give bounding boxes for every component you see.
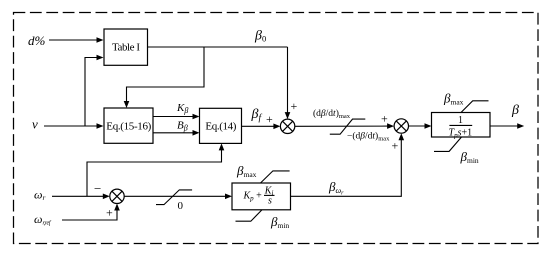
arrowhead omega_rref into J3 bottom: [114, 204, 120, 211]
arrowhead into lag box: [425, 123, 432, 129]
wire branch down to Eq.(15-16): [127, 47, 205, 103]
svg-text:+: +: [381, 111, 388, 125]
wire omega_r branch up into Eq.(14): [87, 148, 222, 196]
wire lag box output beta: [490, 125, 519, 127]
wire K_beta: [153, 116, 194, 118]
wire v to Eq.(15-16): [44, 125, 97, 127]
svg-text:Tps+1: Tps+1: [449, 127, 473, 139]
box Table I: [104, 29, 148, 65]
saturation glyph PI bottom: [236, 210, 263, 221]
saturation glyph PI top: [261, 171, 290, 183]
wire v branch up to Table I: [85, 58, 97, 127]
wire Table I output to node beta0: [148, 46, 288, 48]
svg-text:−: −: [94, 181, 101, 196]
rate limiter glyph: [330, 119, 366, 134]
svg-text:β: β: [511, 103, 519, 118]
arrowhead omega_r branch into Eq.(14) bottom: [219, 143, 225, 150]
wire PI output beta_omega up into J2: [291, 139, 402, 196]
fraction bar 1/(Tps+1): [449, 124, 472, 126]
wire Eq.(14) output beta_f to J1: [242, 125, 276, 127]
wire omega_rref to J3: [62, 209, 117, 220]
wire omega_r to J3: [52, 195, 104, 197]
svg-text:Eq.(15-16): Eq.(15-16): [106, 121, 151, 133]
svg-text:s: s: [268, 196, 272, 207]
svg-text:+: +: [392, 138, 399, 152]
arrowhead beta output: [517, 123, 524, 129]
svg-text:1: 1: [458, 115, 463, 126]
summing junction J1: [280, 119, 294, 133]
summing junction J2: [394, 119, 408, 133]
arrowhead B_beta into Eq.(14): [193, 130, 200, 136]
box lag 1/(Tps+1): [432, 113, 491, 138]
arrowhead omega_r into J3: [103, 194, 110, 200]
box Eq.(14): [200, 108, 242, 143]
arrowhead beta0 into J1 top: [285, 112, 291, 119]
svg-text:+: +: [106, 206, 113, 220]
svg-text:+: +: [291, 99, 298, 113]
summing junction J3: [110, 189, 124, 203]
arrowhead beta_f into J1: [273, 124, 280, 130]
saturation glyph lag top: [461, 101, 489, 113]
svg-text:+: +: [266, 112, 273, 126]
svg-text:Table I: Table I: [112, 41, 140, 53]
wire J2 to lag box: [409, 125, 427, 127]
arrowhead into PI box: [225, 194, 232, 200]
arrowhead branch into Eq.(15-16) top: [124, 101, 130, 108]
wire d% to Table I: [49, 39, 97, 41]
box PI controller Kp+Ki/s: [232, 183, 291, 210]
wire J3 to PI box through dead zone: [124, 195, 226, 197]
box Eq.(15-16): [104, 108, 153, 143]
svg-text:0: 0: [178, 200, 184, 212]
fraction bar Ki/s: [264, 194, 275, 196]
wire J1 to J2 through rate limiter: [295, 125, 389, 127]
arrowhead d% into Table I: [97, 37, 104, 43]
arrowhead v into Eq.(15-16): [97, 123, 104, 129]
svg-text:v: v: [32, 117, 38, 132]
dead zone glyph: [156, 190, 192, 205]
arrowhead v branch into Table I: [97, 55, 104, 61]
saturation glyph lag bottom: [434, 137, 462, 151]
svg-text:Eq.(14): Eq.(14): [205, 121, 236, 133]
arrowhead into J2 left: [387, 123, 394, 129]
wire B_beta: [153, 132, 194, 134]
wire beta0 down into J1: [287, 47, 289, 114]
arrowhead beta_omega into J2 bottom: [399, 133, 405, 140]
arrowhead K_beta into Eq.(14): [193, 114, 200, 120]
svg-text:d%: d%: [28, 33, 46, 48]
